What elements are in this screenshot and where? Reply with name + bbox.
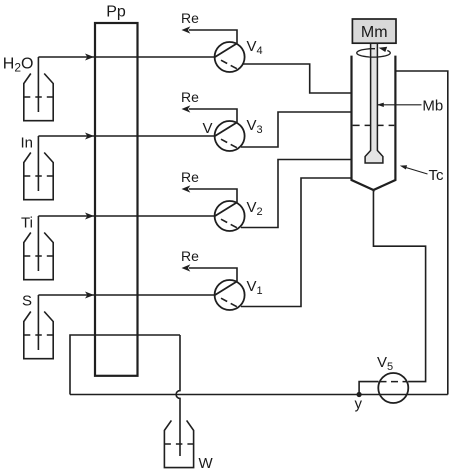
wire feed S — [38, 292, 215, 299]
svg-text:Re: Re — [181, 10, 199, 26]
motor Mm — [352, 19, 396, 43]
svg-text:W: W — [199, 455, 214, 472]
rotation arrow — [357, 47, 390, 57]
wire overflow — [395, 71, 447, 395]
valve V2 — [215, 201, 245, 231]
pump Pp — [95, 23, 138, 376]
junction y — [357, 392, 362, 397]
wire Re stem V3 — [182, 105, 238, 122]
container W — [164, 420, 193, 467]
svg-text:Re: Re — [181, 248, 199, 264]
dip tube S — [37, 295, 39, 350]
svg-text:Mm: Mm — [361, 24, 388, 41]
container In — [24, 153, 53, 200]
valve V3 — [215, 121, 245, 151]
valve V5 — [378, 373, 408, 403]
wire recycle left — [70, 335, 180, 395]
wire V4 to vessel — [243, 64, 351, 93]
wire riser to V5 — [359, 382, 378, 395]
vessel liquid level — [353, 124, 395, 126]
container H2O — [24, 74, 53, 121]
svg-text:y: y — [355, 396, 363, 413]
svg-text:S: S — [22, 293, 32, 310]
vessel Tc walls — [352, 56, 396, 190]
svg-text:Ti: Ti — [21, 215, 33, 232]
container Ti — [24, 233, 53, 280]
svg-text:Mb: Mb — [422, 98, 443, 115]
wire bottom line — [70, 394, 448, 396]
leader Mb — [377, 103, 422, 107]
wire outlet vessel to V5 — [373, 190, 425, 382]
dip tube In — [37, 136, 39, 191]
wire Re stem V4 — [182, 26, 238, 43]
wire feed Ti — [38, 213, 215, 220]
svg-text:In: In — [20, 135, 33, 152]
valve V1 — [215, 280, 245, 310]
svg-text:Pp: Pp — [106, 4, 126, 21]
leader Tc — [400, 165, 428, 174]
svg-text:Re: Re — [181, 169, 199, 185]
wire feed H2O — [38, 54, 215, 61]
wire Re stem V1 — [182, 264, 238, 281]
valve V4 — [215, 42, 245, 72]
dip tube Ti — [37, 216, 39, 271]
stirrer shaft and paddle Mb — [365, 42, 383, 163]
container S — [24, 312, 53, 359]
svg-text:Tc: Tc — [429, 167, 445, 184]
wire V2 to vessel — [241, 160, 351, 228]
dip tube H2O — [37, 57, 39, 112]
wire feed In — [38, 133, 215, 140]
wire V3 to vessel — [241, 112, 351, 147]
svg-text:Re: Re — [181, 89, 199, 105]
wire to W with hop — [176, 335, 180, 456]
wire V1 to vessel — [241, 178, 351, 307]
svg-text:V: V — [203, 120, 213, 137]
wire Re stem V2 — [182, 185, 238, 202]
